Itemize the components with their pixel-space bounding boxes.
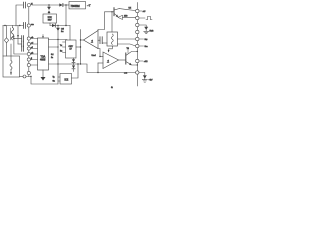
node P5 terminal circle xyxy=(27,47,30,50)
pot wiper arrow xyxy=(109,46,113,52)
junction dot bus xyxy=(137,64,138,65)
wire top-left riser xyxy=(16,5,23,26)
node P8 terminal circle xyxy=(27,63,30,66)
terminal circle out1 xyxy=(136,9,139,12)
arrowhead coil xyxy=(10,72,12,75)
capacitor C4 xyxy=(22,41,24,47)
wire B2 bottom xyxy=(49,23,51,26)
junction dot xyxy=(65,4,66,5)
svg-text:mn: mn xyxy=(31,24,34,26)
Q2 emitter xyxy=(126,62,138,66)
arrowhead winding lead xyxy=(13,36,15,38)
wire row B xyxy=(18,43,22,45)
junction dot xyxy=(97,72,98,73)
B4 left pins xyxy=(58,77,60,81)
svg-text:3w: 3w xyxy=(145,39,148,41)
op-amp A1 (points left) xyxy=(84,31,99,49)
wire diamond branch xyxy=(6,26,8,38)
svg-text:4605: 4605 xyxy=(40,58,46,61)
right bus vertical xyxy=(136,3,138,87)
wire coil feed xyxy=(10,44,12,61)
svg-text:ZTK: ZTK xyxy=(48,17,53,19)
opto box B3 xyxy=(66,40,77,58)
svg-text:+U: +U xyxy=(143,11,146,13)
pot right pin 1 xyxy=(118,38,136,40)
wire feed row P6 xyxy=(14,39,27,55)
pot right pin 2 xyxy=(118,44,136,46)
wire mid rail y25.5 xyxy=(50,25,70,27)
label out5 lead xyxy=(139,38,144,40)
junction dot xyxy=(57,39,58,40)
wire relay to P9 xyxy=(20,76,24,78)
junction dot top rail xyxy=(48,4,49,5)
arrowhead Q1 emitter xyxy=(116,15,119,18)
node P1 terminal circle xyxy=(27,4,30,7)
zener Z1 (stacked pair) xyxy=(48,5,50,7)
node P6 terminal circle xyxy=(27,52,30,55)
regulator box B1 xyxy=(69,2,86,9)
ground U1 xyxy=(42,70,44,77)
transformer T1 winding xyxy=(11,28,13,40)
capacitor C1 xyxy=(23,2,25,8)
Q2 base xyxy=(119,59,126,61)
svg-text:17: 17 xyxy=(70,49,73,51)
ref wire from A1 xyxy=(98,49,100,57)
wire winding top xyxy=(12,26,14,28)
B3 stubs xyxy=(63,42,66,53)
Q1 emitter xyxy=(114,13,118,16)
transformer core line xyxy=(10,28,12,40)
svg-text:CNY: CNY xyxy=(69,46,74,48)
wire coil bottom arrow xyxy=(10,70,12,75)
B4 right pin xyxy=(72,64,79,78)
relay K1 coil xyxy=(10,61,12,70)
svg-text:Rx: Rx xyxy=(60,51,62,53)
svg-text:3m: 3m xyxy=(145,46,148,48)
junction dot row A xyxy=(13,38,14,39)
long vertical x58 xyxy=(57,40,59,85)
relay K1 box xyxy=(3,56,20,77)
svg-text:Tx: Tx xyxy=(60,45,62,47)
pin stub row5 xyxy=(30,59,37,61)
svg-text:IC2: IC2 xyxy=(65,78,69,81)
capacitor C2 xyxy=(23,23,25,29)
node P4 terminal circle xyxy=(27,42,30,45)
wire IC pin right y64 xyxy=(49,63,59,65)
label right of out1 xyxy=(139,10,142,12)
Q2 top stub xyxy=(127,50,129,54)
junction dot xyxy=(65,25,66,26)
B3 right pin xyxy=(76,46,81,48)
zener to ground bottom right xyxy=(139,73,145,76)
wire inverter to bus xyxy=(123,16,136,18)
zener to ground top right xyxy=(139,25,146,27)
svg-text:33V: 33V xyxy=(48,20,52,22)
junction dot xyxy=(73,63,74,64)
zener Z2 xyxy=(57,26,59,29)
arrowhead on branch xyxy=(17,35,19,38)
wire left edge down xyxy=(2,26,4,57)
junction dot xyxy=(57,63,58,64)
transistor Q1 bar xyxy=(113,8,115,16)
inverter triangle small xyxy=(118,15,123,19)
svg-text:+12: +12 xyxy=(144,61,148,63)
wire bus left column lower seg xyxy=(28,75,30,77)
pot R20 box xyxy=(107,32,118,46)
IC2 box B4 xyxy=(60,74,72,85)
wire IC pin right y47 xyxy=(49,46,59,48)
arrowhead Q2 emitter xyxy=(129,63,132,66)
terminal circle out8 xyxy=(136,59,139,62)
junction dot xyxy=(19,25,20,26)
svg-text:a: a xyxy=(111,85,113,89)
node P9 terminal circle xyxy=(27,71,30,74)
node P3 terminal circle xyxy=(27,37,30,40)
pin stub row1 xyxy=(30,38,37,40)
wire down to opto xyxy=(69,26,71,41)
terminal circle out5 xyxy=(136,37,139,40)
staircase wire xyxy=(81,64,136,73)
main IC U1 box xyxy=(38,38,49,70)
svg-text:out: out xyxy=(124,71,127,74)
pin stub row4 xyxy=(30,53,37,55)
capacitor C10 at A1 output xyxy=(100,37,102,44)
svg-text:1u: 1u xyxy=(61,31,64,33)
square wave label out2 xyxy=(139,17,145,19)
wire diamond to relay box xyxy=(6,43,8,56)
wire A1 top loop xyxy=(98,12,114,31)
terminal circle out9 xyxy=(136,71,139,74)
junction dot xyxy=(80,39,81,40)
node P2 terminal circle xyxy=(27,24,30,27)
svg-text:5V6: 5V6 xyxy=(150,31,155,33)
svg-text:Tp: Tp xyxy=(53,77,55,79)
svg-text:T8: T8 xyxy=(127,48,130,50)
Q2 collector xyxy=(126,52,138,56)
pot resistor squiggle xyxy=(111,34,113,44)
opto diodes stack xyxy=(73,58,75,59)
rail y39.5 xyxy=(49,39,68,41)
junction dot xyxy=(57,46,58,47)
diode D1 xyxy=(59,3,62,6)
wire P9 to corner xyxy=(26,77,58,85)
wire row A xyxy=(14,38,22,40)
wire apex A1 xyxy=(81,39,84,41)
pin stub row3 xyxy=(30,48,37,50)
node P10 terminal circle on row xyxy=(23,75,26,78)
junction dot xyxy=(77,63,78,64)
svg-text:1n: 1n xyxy=(51,57,53,59)
wire winding bottom to row A xyxy=(13,37,14,39)
lamp diamond xyxy=(4,38,8,43)
vertical x80.5 xyxy=(80,30,82,65)
svg-text:Gn: Gn xyxy=(53,81,55,83)
svg-text:7B05BM: 7B05BM xyxy=(71,5,80,8)
pin stub row6 xyxy=(30,64,37,66)
wire top rail xyxy=(32,4,59,6)
wire left AC rail xyxy=(3,25,23,27)
pin stub row2 xyxy=(30,43,37,45)
capacitor C5 xyxy=(22,46,24,51)
wire opto row y64 xyxy=(58,63,81,65)
svg-text:C9: C9 xyxy=(61,29,65,31)
terminal circle out2 xyxy=(136,16,139,19)
svg-text:~5V: ~5V xyxy=(149,80,153,82)
svg-text:1: 1 xyxy=(91,39,93,44)
junction dot xyxy=(80,63,81,64)
junction dot xyxy=(4,25,5,26)
op-amp A2 (points right) xyxy=(103,52,119,69)
svg-text:gh: gh xyxy=(31,52,33,54)
terminal circle out4 xyxy=(136,30,139,33)
junction dot xyxy=(30,76,31,77)
svg-text:~T: ~T xyxy=(87,4,91,8)
A2 input+ xyxy=(100,56,103,58)
wire A1 base to cap xyxy=(98,39,100,41)
wire bus left column xyxy=(28,7,30,72)
terminal circle out6 xyxy=(136,44,139,47)
junction dot xyxy=(111,11,112,12)
reference box B2 xyxy=(43,14,57,23)
svg-text:U5: U5 xyxy=(129,8,132,10)
svg-text:1: 1 xyxy=(107,59,109,64)
capacitor C3 xyxy=(22,36,24,42)
U1 top pin stub xyxy=(42,35,44,39)
node P7 terminal circle xyxy=(27,58,30,61)
junction dot xyxy=(57,25,58,26)
svg-text:Uref: Uref xyxy=(92,54,97,57)
terminal circle out3 xyxy=(136,23,139,26)
svg-text:0.1: 0.1 xyxy=(51,54,54,56)
Q1 collector xyxy=(114,9,136,11)
svg-text:cd: cd xyxy=(31,42,33,44)
junction dot xyxy=(80,46,81,47)
label out8 xyxy=(139,60,143,62)
wire D1 to box xyxy=(63,4,69,6)
A2 input- staircase xyxy=(98,62,103,64)
wire pot top feed xyxy=(111,12,113,32)
label out6 lead xyxy=(139,45,144,47)
wire switch branch xyxy=(17,26,19,45)
junction dot xyxy=(137,51,138,52)
transistor Q2 bar xyxy=(125,53,127,64)
diode D2 xyxy=(52,24,55,27)
junction dot xyxy=(99,56,100,57)
junction to pot xyxy=(102,42,107,44)
wire top rail to mid rail xyxy=(65,5,67,26)
